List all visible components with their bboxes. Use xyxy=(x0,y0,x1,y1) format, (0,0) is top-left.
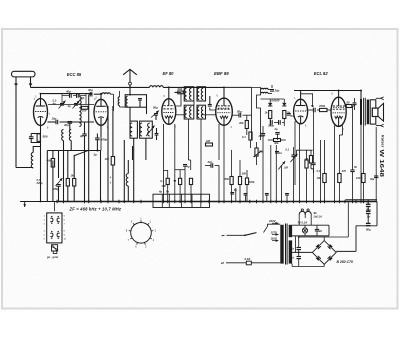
resistor R13 xyxy=(249,132,252,148)
svg-text:300: 300 xyxy=(162,184,167,188)
capacitor C11 30p xyxy=(88,88,93,96)
wire top rail right xyxy=(294,90,361,92)
svg-text:ZF = 468 kHz + 10,7 MHz: ZF = 468 kHz + 10,7 MHz xyxy=(69,206,122,211)
capacitor C6 2p xyxy=(79,134,87,138)
wire x270 drop xyxy=(270,145,272,202)
resistor R1 500 xyxy=(37,134,40,142)
svg-text:2p: 2p xyxy=(79,134,84,138)
wire drop x84 xyxy=(84,151,86,202)
junction T2 top xyxy=(360,90,362,92)
wire det box top link xyxy=(224,86,252,88)
connector pin numbers xyxy=(44,216,67,241)
wire V5 bottom2 xyxy=(294,121,296,185)
label Kaiser xyxy=(381,135,385,148)
capacitor C30 5p xyxy=(230,188,237,194)
resistor R27 50 xyxy=(305,156,314,174)
tube V3 EF80 xyxy=(162,99,176,125)
resistor R11 1M xyxy=(206,139,213,146)
coil L16 xyxy=(185,107,187,118)
label W1648 xyxy=(378,150,384,178)
wire top rail ECC85 xyxy=(41,93,93,95)
label tube ECC85 xyxy=(67,72,82,77)
dial socket ticks xyxy=(126,217,157,248)
extra grid dash V4 xyxy=(218,107,230,109)
resistor R8 xyxy=(166,170,169,202)
svg-text:50p: 50p xyxy=(153,106,158,110)
wire cap rail xyxy=(356,225,377,227)
wire drop x58 xyxy=(58,151,60,179)
trimmer CT2 xyxy=(73,101,80,109)
bridge outline xyxy=(312,241,336,265)
wire V4 bottom2 xyxy=(218,124,220,160)
svg-text:4p: 4p xyxy=(52,101,56,105)
label tube EBF89 xyxy=(214,71,229,76)
wire det rail xyxy=(261,99,285,103)
connector contacts xyxy=(50,216,59,239)
coil L13 xyxy=(189,88,191,99)
capacitor C19 250p xyxy=(258,134,266,139)
label 220V xyxy=(268,219,279,225)
svg-text:W 1648: W 1648 xyxy=(378,150,384,178)
wire V3 right xyxy=(176,114,179,116)
coil L20 xyxy=(261,88,268,89)
box IF1b xyxy=(197,87,206,101)
resistor R16 1k xyxy=(265,111,272,119)
svg-text:2x0,1A: 2x0,1A xyxy=(313,214,322,218)
wire AVC row xyxy=(47,150,100,152)
wire y170 link xyxy=(175,169,185,171)
transformer T1 sec bottom xyxy=(289,240,292,263)
wire V4 left xyxy=(210,108,216,110)
transformer T1 sec top xyxy=(289,225,292,237)
svg-text:1n: 1n xyxy=(279,151,282,155)
bridge diode 3 xyxy=(316,256,321,261)
svg-text:4p: 4p xyxy=(67,104,71,108)
label 7V xyxy=(298,220,308,224)
resistor R3 40k xyxy=(46,159,55,168)
wire V3 bottom pins xyxy=(190,160,192,170)
wire R7 xyxy=(175,91,185,93)
label PL100 xyxy=(270,99,280,103)
svg-text:470: 470 xyxy=(341,169,347,173)
connector plug xyxy=(52,245,58,254)
resistor R15 300k xyxy=(238,160,241,202)
svg-text:2µ: 2µ xyxy=(274,127,278,131)
mast antenna arrow xyxy=(123,69,137,75)
coil L9 xyxy=(126,174,128,187)
resistor R21 50 xyxy=(346,101,352,108)
svg-text:1n: 1n xyxy=(291,256,294,260)
resistor R14 50k xyxy=(230,177,233,202)
wire V5 anode elbow xyxy=(301,94,313,107)
svg-text:50: 50 xyxy=(347,101,350,105)
wire L1 right leg xyxy=(40,132,42,202)
antenna A1 left lead tick xyxy=(15,84,18,86)
bus junction ticks xyxy=(57,200,368,203)
dial socket circle xyxy=(131,223,152,244)
capacitor C7 450p xyxy=(95,138,107,142)
wire drop x124 xyxy=(123,140,125,202)
speaker LS terminal top xyxy=(376,97,384,100)
wire V1 top pin xyxy=(40,94,42,99)
wire bus right end drop xyxy=(367,202,369,205)
wire heater bottom xyxy=(292,235,329,237)
wire box stub xyxy=(139,100,141,107)
wire C27 down xyxy=(367,207,369,212)
wire drop x88 xyxy=(88,95,90,202)
wire antenna earth run xyxy=(20,201,57,203)
pin 2 label V2 xyxy=(94,97,96,101)
antenna A1 right lead tick xyxy=(29,84,32,86)
coil L11 xyxy=(118,97,125,107)
wire drop x47 xyxy=(46,151,48,202)
resistor R25 100 xyxy=(356,126,365,202)
capacitor C33 xyxy=(291,256,301,260)
resistor R10 xyxy=(189,178,192,201)
resistor R9 xyxy=(179,170,182,202)
wire grid row xyxy=(48,104,94,106)
coil L6 xyxy=(130,123,132,136)
label R1 500 xyxy=(43,135,48,139)
label 50p xyxy=(153,106,158,110)
resistor R7 20k xyxy=(177,87,184,94)
svg-text:gn - grün: gn - grün xyxy=(46,255,59,259)
wire osc A drop xyxy=(133,138,135,201)
box IF2a xyxy=(184,105,194,119)
svg-text:2p: 2p xyxy=(93,153,98,157)
wire V3 anode xyxy=(175,92,182,106)
svg-text:EF 80: EF 80 xyxy=(163,71,175,76)
coil L4 choke xyxy=(150,86,164,88)
wire box down right xyxy=(146,107,148,114)
wire R4 xyxy=(67,151,69,202)
svg-text:30µ: 30µ xyxy=(370,178,375,181)
box osc B xyxy=(140,121,153,138)
svg-text:20p: 20p xyxy=(274,89,280,93)
mains hook 1 xyxy=(245,233,257,236)
extra grid dash V6 xyxy=(333,107,344,109)
wire C1 xyxy=(31,134,40,143)
coil L2 osc xyxy=(62,130,64,141)
wire R6 xyxy=(112,106,114,202)
wire L3 stub xyxy=(70,141,72,151)
coil L19 xyxy=(201,107,203,118)
bridge diode 2 xyxy=(328,244,333,249)
capacitor C18 300p xyxy=(279,120,281,125)
svg-text:300k: 300k xyxy=(249,181,255,184)
tube V4 EBF89 xyxy=(216,98,233,125)
svg-text:4p: 4p xyxy=(158,190,162,194)
svg-text:B 250 C75: B 250 C75 xyxy=(337,260,353,264)
wire C4 to V2 xyxy=(60,121,95,123)
coil L23 osc coupling xyxy=(79,94,81,127)
speaker LS magnet box xyxy=(372,108,378,116)
capacitor C28 5n xyxy=(366,211,371,218)
trimmer CT4 xyxy=(151,111,159,118)
capacitor C9 xyxy=(138,99,142,101)
capacitor C36 1n xyxy=(275,151,282,155)
capacitor C2 40p xyxy=(62,90,77,105)
box ratio det xyxy=(252,88,261,141)
wire top RF rail xyxy=(31,86,150,88)
svg-text:10p: 10p xyxy=(52,117,57,121)
coil L5 xyxy=(126,96,128,106)
resistor R12 400k xyxy=(238,121,248,129)
wire sec to bridge xyxy=(292,251,312,253)
pin 1 label V1 xyxy=(34,97,36,101)
wire drop x53 xyxy=(52,161,54,202)
svg-text:Kaiser: Kaiser xyxy=(381,135,385,148)
wire L9 xyxy=(127,160,129,202)
svg-text:Sk: Sk xyxy=(314,211,318,215)
coil L17 xyxy=(190,107,192,118)
trimmer core arrow xyxy=(146,125,155,136)
svg-text:5n: 5n xyxy=(367,215,371,219)
wire det drop xyxy=(257,140,264,202)
wire rail2 xyxy=(113,94,115,111)
wire drop x100 xyxy=(100,151,102,202)
wire V5 bottom xyxy=(299,124,301,202)
svg-text:300: 300 xyxy=(242,172,247,176)
capacitor C3 40p xyxy=(77,93,87,104)
coil L10 xyxy=(102,93,110,94)
capacitor C27 50u xyxy=(366,204,371,211)
svg-text:220V: 220V xyxy=(268,219,277,223)
svg-text:7V 0,3A: 7V 0,3A xyxy=(298,220,308,224)
svg-text:100: 100 xyxy=(317,176,322,180)
mast antenna stem xyxy=(129,69,131,82)
label tube EF80 xyxy=(163,71,175,76)
capacitor C23 5n xyxy=(311,104,315,112)
capacitor C4 10p xyxy=(52,117,58,125)
resistor R18 30k xyxy=(274,139,281,146)
resistor R5 1M xyxy=(71,174,76,187)
svg-text:100: 100 xyxy=(82,109,87,113)
stub caps on bus xyxy=(244,194,289,202)
wire x348 drop xyxy=(347,202,349,238)
wire P1 xyxy=(281,166,283,202)
resistor R20 470k xyxy=(318,104,327,112)
svg-text:0,8A: 0,8A xyxy=(245,257,251,261)
wire V2 bottom pin xyxy=(100,125,102,137)
capacitor C26 xyxy=(311,112,315,202)
bus B+ parallel line xyxy=(346,199,378,201)
tube V2 ECC85 triode b xyxy=(94,99,108,125)
wire C15 xyxy=(232,114,251,116)
wire x377 drop xyxy=(376,202,378,226)
speaker LS cone xyxy=(378,103,384,121)
wire mains L1 xyxy=(222,234,246,237)
capacitor C1 xyxy=(29,137,34,139)
wire C7 xyxy=(96,134,98,151)
label 127V xyxy=(271,230,279,236)
label 5 xyxy=(110,181,112,185)
svg-text:470k: 470k xyxy=(318,104,326,108)
bridge diode 1 xyxy=(316,244,321,249)
wire V5 V6 link xyxy=(307,109,332,111)
junction V6 top xyxy=(338,90,340,92)
switch S2 lever xyxy=(245,233,257,236)
wire tap 220 xyxy=(264,224,281,232)
capacitor C12 xyxy=(154,114,158,121)
label Sk xyxy=(313,211,322,218)
resistor R17 2k xyxy=(283,111,291,119)
svg-text:20k: 20k xyxy=(177,87,183,91)
coil L15 xyxy=(201,88,203,99)
label 4p xyxy=(67,104,71,108)
wire V6 bottom2 xyxy=(339,126,342,136)
wire RF rail to V4 xyxy=(163,86,224,88)
wire IF drops2 xyxy=(193,101,195,105)
wire V1 V2 coupling xyxy=(48,121,57,123)
resistor R22 470 xyxy=(338,135,347,202)
svg-text:0,1: 0,1 xyxy=(242,135,246,139)
resistor R2 100 xyxy=(82,106,89,112)
box FM tuner xyxy=(125,95,146,108)
svg-text:ECC 85: ECC 85 xyxy=(67,72,82,77)
capacitor C24 xyxy=(353,98,357,110)
label 0,1 xyxy=(160,179,166,188)
coil L14 xyxy=(197,88,199,99)
resistor R6 10k xyxy=(105,157,115,166)
coil L21 xyxy=(261,92,268,93)
label 110V xyxy=(271,236,279,242)
wire R3 top xyxy=(52,151,54,159)
wire y150 link xyxy=(296,150,312,155)
trimmer CT1 xyxy=(59,101,66,109)
wire antenna bottom to coil xyxy=(16,167,33,169)
wire C14 xyxy=(205,166,219,202)
wire V1 bottom pin xyxy=(40,126,42,132)
svg-text:40k: 40k xyxy=(46,159,52,163)
fuse F1 xyxy=(245,257,252,265)
coil L1 xyxy=(31,153,33,169)
svg-text:1k: 1k xyxy=(265,111,268,115)
label tuning range xyxy=(36,178,43,185)
wire drop x235 xyxy=(235,188,237,202)
wire C28 down xyxy=(367,214,369,224)
wire V5 top pin xyxy=(300,91,302,100)
bridge diode 4 xyxy=(328,256,333,261)
svg-text:500: 500 xyxy=(43,135,48,139)
capacitor C20 2u xyxy=(274,127,280,134)
wire V4 top pin xyxy=(223,87,225,99)
wire T2 top xyxy=(360,91,362,100)
wire x320 drop xyxy=(320,140,322,202)
resistor R26 xyxy=(245,170,255,202)
box socket strip xyxy=(153,194,210,207)
wire L10 ends xyxy=(110,93,113,95)
lamp loops xyxy=(299,209,311,225)
label 300k xyxy=(242,172,247,176)
transformer T2 core xyxy=(364,98,366,126)
wire to rectifier xyxy=(336,250,356,252)
label B250C75 xyxy=(337,260,353,264)
junction V3 top xyxy=(40,86,170,95)
wire C6 xyxy=(84,122,86,151)
wire C11 right xyxy=(94,93,102,95)
coil L12 xyxy=(185,88,187,99)
wire drop x231 xyxy=(231,150,233,176)
box osc A xyxy=(130,121,137,138)
label 2p xyxy=(93,153,98,157)
wire drop x132 xyxy=(132,146,134,160)
wire T2 bottom xyxy=(360,125,362,202)
wire det mid xyxy=(270,119,284,127)
wire x356 drop xyxy=(355,226,357,252)
label ZF xyxy=(69,206,122,211)
wire V6 bottom pins xyxy=(334,126,336,202)
antenna A1 top bar xyxy=(12,71,36,77)
wire drop x119 xyxy=(119,91,121,97)
trimmer CT1 cap xyxy=(60,104,64,106)
wire x163 elbow xyxy=(164,124,168,202)
svg-text:ECL 82: ECL 82 xyxy=(314,71,329,76)
wire V2 bottom drop xyxy=(100,137,102,150)
capacitor C37 30u xyxy=(370,176,378,181)
wire bridge bottom xyxy=(292,264,324,267)
capacitor C14 22n xyxy=(207,160,213,168)
pot arrow P2 xyxy=(291,154,298,162)
trimmer CT3 xyxy=(56,178,63,186)
pin 7 label V1 xyxy=(49,112,51,116)
tube pin digits xyxy=(35,94,344,132)
label 1M pot xyxy=(284,166,288,170)
wire R5 xyxy=(73,156,75,202)
antenna A1 right downlead xyxy=(30,77,32,88)
capacitor C10 xyxy=(155,128,159,140)
earth arrow bar xyxy=(40,201,42,203)
wire IF drops xyxy=(189,119,191,160)
capacitor C17 300p xyxy=(268,120,274,127)
label 50k xyxy=(225,177,230,181)
svg-text:50k: 50k xyxy=(225,177,230,181)
label 0,1M xyxy=(242,135,246,139)
svg-text:2n: 2n xyxy=(318,229,322,233)
capacitor C16 20p xyxy=(270,89,280,93)
wire drop x108 xyxy=(107,106,109,202)
speaker LS coil bar xyxy=(367,100,369,125)
wire connector stub xyxy=(54,202,56,211)
wire bridge top xyxy=(299,237,349,241)
svg-text:22n: 22n xyxy=(207,160,213,164)
svg-text:1M: 1M xyxy=(206,139,211,143)
label 0,1u xyxy=(286,148,290,152)
coil L7 xyxy=(140,123,142,136)
wire det top xyxy=(268,85,272,94)
wire det low xyxy=(263,126,286,140)
transformer T1 core xyxy=(286,224,288,265)
coil L8 xyxy=(148,123,150,136)
capacitor C21 2n xyxy=(287,114,294,119)
tube V1 ECC85 triode a xyxy=(34,99,48,126)
wire L2 stub xyxy=(63,141,65,151)
wire drop x64 xyxy=(63,151,65,202)
socket labels xyxy=(158,190,169,194)
svg-text:30k: 30k xyxy=(274,141,279,145)
trimmer CT2 cap xyxy=(74,104,78,106)
svg-text:300p: 300p xyxy=(268,124,274,128)
capacitor C31 2n xyxy=(315,225,323,236)
capacitor C13 xyxy=(208,96,212,106)
wire V6 top pin xyxy=(338,91,340,98)
svg-text:0,1: 0,1 xyxy=(286,148,290,152)
wire V4 bottom xyxy=(223,125,225,201)
capacitor C29 50u xyxy=(366,223,371,231)
wire x305 drop xyxy=(306,168,308,202)
svg-text:40p: 40p xyxy=(65,90,71,94)
wire fuse to T1 xyxy=(251,262,280,264)
